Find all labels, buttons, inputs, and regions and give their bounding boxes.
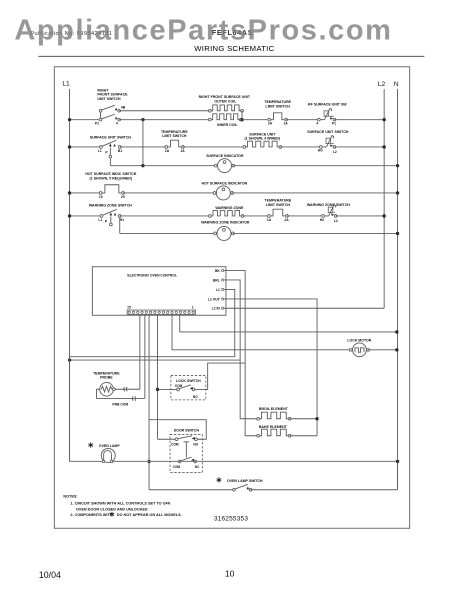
svg-text:SURFACE UNIT: SURFACE UNIT — [249, 132, 276, 136]
svg-text:P: P — [105, 220, 108, 224]
svg-text:PROBE: PROBE — [100, 376, 113, 380]
svg-text:DOOR SWITCH: DOOR SWITCH — [174, 428, 200, 432]
svg-text:RIGHT FRONT SURFACE UNIT: RIGHT FRONT SURFACE UNIT — [199, 95, 251, 99]
svg-text:4: 4 — [116, 122, 118, 126]
svg-text:OVEN LAMP SWITCH: OVEN LAMP SWITCH — [227, 479, 263, 483]
svg-text:COM: COM — [175, 384, 183, 388]
svg-text:2A: 2A — [268, 122, 273, 126]
svg-text:B1: B1 — [118, 149, 122, 153]
svg-text:P: P — [105, 151, 108, 155]
svg-text:BK: BK — [215, 269, 220, 273]
svg-text:NOTES:: NOTES: — [63, 495, 77, 499]
svg-text:(1 SHOWN, 5 REQUIRED): (1 SHOWN, 5 REQUIRED) — [90, 176, 133, 180]
svg-text:BAKE ELEMENT: BAKE ELEMENT — [259, 425, 288, 429]
svg-text:P1: P1 — [332, 122, 336, 126]
svg-text:L2: L2 — [334, 219, 338, 223]
svg-text:NO: NO — [193, 395, 198, 399]
svg-text:1A: 1A — [267, 218, 272, 222]
svg-text:COM: COM — [173, 465, 181, 469]
svg-text:P2: P2 — [95, 122, 99, 126]
svg-text:L1: L1 — [216, 288, 220, 292]
svg-text:L2 IN: L2 IN — [212, 307, 221, 311]
svg-text:N: N — [394, 81, 399, 88]
svg-text:UNIT SWITCH: UNIT SWITCH — [97, 97, 121, 101]
svg-text:HOT SURFACE INDIC SWITCH: HOT SURFACE INDIC SWITCH — [85, 172, 136, 176]
svg-text:1A: 1A — [180, 149, 185, 153]
svg-text:NC: NC — [195, 465, 200, 469]
svg-text:4B: 4B — [121, 105, 126, 109]
svg-text:L1: L1 — [62, 80, 70, 87]
svg-text:L1: L1 — [98, 218, 102, 222]
svg-text:ELECTRONIC OVEN CONTROL: ELECTRONIC OVEN CONTROL — [127, 274, 177, 278]
svg-text:4: 4 — [316, 122, 318, 126]
svg-text:INNER COIL: INNER COIL — [217, 123, 238, 127]
svg-text:AppliancePartsPros.com: AppliancePartsPros.com — [14, 14, 391, 46]
svg-text:LOCK MOTOR: LOCK MOTOR — [347, 339, 371, 343]
svg-text:OUTER COIL: OUTER COIL — [214, 100, 237, 104]
svg-text:NO: NO — [193, 443, 198, 447]
svg-text:HOT SURFACE INDICATOR: HOT SURFACE INDICATOR — [201, 181, 247, 185]
svg-text:(1 SHOWN, 4 WIRED): (1 SHOWN, 4 WIRED) — [245, 137, 281, 141]
svg-text:LIMIT SWITCH: LIMIT SWITCH — [266, 104, 291, 108]
svg-text:OVEN DOOR CLOSED AND UNLOCKED: OVEN DOOR CLOSED AND UNLOCKED — [76, 507, 148, 511]
svg-text:2A: 2A — [165, 149, 170, 153]
svg-text:H1: H1 — [120, 218, 124, 222]
svg-text:DO NOT APPEAR ON ALL MODELS.: DO NOT APPEAR ON ALL MODELS. — [117, 513, 182, 517]
svg-text:LIMIT SWITCH: LIMIT SWITCH — [266, 203, 291, 207]
svg-text:10: 10 — [99, 195, 103, 199]
svg-text:BRL: BRL — [213, 278, 220, 282]
svg-text:1. CIRCUIT SHOWN WITH ALL CON: 1. CIRCUIT SHOWN WITH ALL CONTROLS SET T… — [70, 502, 171, 506]
svg-text:COM: COM — [171, 443, 179, 447]
svg-text:L2 OUT: L2 OUT — [208, 297, 220, 301]
svg-text:RF SURFACE UNIT SW: RF SURFACE UNIT SW — [308, 103, 347, 107]
svg-text:1: 1 — [192, 305, 194, 309]
svg-text:10: 10 — [225, 568, 235, 578]
svg-text:10/04: 10/04 — [39, 570, 61, 580]
svg-text:WARNING ZONE: WARNING ZONE — [215, 206, 244, 210]
svg-text:LIMIT SWITCH: LIMIT SWITCH — [162, 134, 187, 138]
svg-text:SURFACE UNIT SWITCH: SURFACE UNIT SWITCH — [307, 130, 349, 134]
svg-text:WARNING ZONE INDICATOR: WARNING ZONE INDICATOR — [201, 221, 250, 225]
svg-text:WIRING SCHEMATIC: WIRING SCHEMATIC — [194, 44, 274, 53]
svg-text:29: 29 — [121, 195, 125, 199]
svg-text:HO: HO — [318, 149, 323, 153]
svg-text:OVEN LAMP: OVEN LAMP — [99, 444, 120, 448]
svg-text:2A: 2A — [284, 218, 289, 222]
svg-text:WARNING ZONE SWITCH: WARNING ZONE SWITCH — [89, 203, 132, 207]
svg-text:PRB COM: PRB COM — [112, 402, 128, 406]
svg-text:BROIL ELEMENT: BROIL ELEMENT — [259, 407, 289, 411]
svg-text:L1: L1 — [98, 149, 102, 153]
svg-text:SURFACE UNIT SWITCH: SURFACE UNIT SWITCH — [90, 136, 132, 140]
svg-text:H2: H2 — [320, 218, 324, 222]
svg-text:SURFACE INDICATOR: SURFACE INDICATOR — [206, 154, 244, 158]
svg-text:15: 15 — [127, 305, 131, 309]
svg-text:L2: L2 — [378, 81, 386, 88]
svg-text:L2: L2 — [333, 150, 337, 154]
svg-text:2. COMPONENTS WITH: 2. COMPONENTS WITH — [70, 513, 112, 517]
svg-text:316255353: 316255353 — [214, 516, 249, 523]
svg-text:WARNING ZONE SWITCH: WARNING ZONE SWITCH — [307, 203, 350, 207]
svg-text:LOCK SWITCH: LOCK SWITCH — [176, 379, 201, 383]
svg-text:1A: 1A — [283, 122, 288, 126]
